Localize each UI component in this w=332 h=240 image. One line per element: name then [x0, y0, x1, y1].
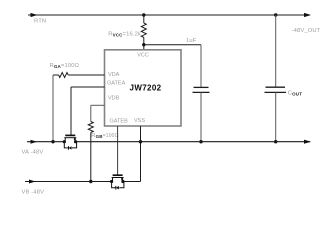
svg-text:GATEA: GATEA: [107, 81, 126, 87]
wire VSS pin: [140, 126, 142, 182]
capacitor C1 1uF: [193, 87, 210, 92]
wire VCC node to C1: [144, 44, 201, 46]
wire C1 bottom lead: [200, 92, 202, 141]
node RTN label: [34, 19, 46, 25]
wire GATEA pin: [71, 87, 105, 135]
resistor RGB=100ohm (vertical): [88, 122, 93, 133]
wire C1 top lead: [200, 45, 202, 87]
wire VDB pin: [91, 105, 105, 121]
arrow RTN input (left, pointing right): [31, 13, 38, 17]
resistor RGA=100ohm (horizontal): [53, 73, 68, 78]
junction RGB / VB rail: [89, 180, 92, 183]
svg-text:RGB=100Ω: RGB=100Ω: [91, 133, 118, 139]
svg-text:VSS: VSS: [134, 118, 145, 124]
resistor RVCC=16.2k (vertical): [141, 15, 146, 45]
node -48V_OUT label: [292, 28, 321, 34]
label RVCC=16.2k: [108, 32, 141, 38]
node VA -48V label: [22, 149, 44, 155]
label C1 value 1uF: [186, 38, 197, 44]
svg-text:VDA: VDA: [108, 72, 120, 78]
label COUT: [288, 91, 302, 97]
arrow VB input (pointing right): [29, 180, 36, 184]
wire GATEB pin: [117, 126, 119, 175]
svg-text:1uF: 1uF: [186, 38, 197, 44]
arrow VA input (pointing right): [31, 140, 38, 144]
junction C1 / -48V rail: [199, 140, 202, 143]
wire COUT bottom lead: [275, 92, 277, 141]
wire VDA pin: [68, 74, 104, 76]
svg-text:RVCC=16.2k: RVCC=16.2k: [108, 32, 141, 38]
svg-text:VB -48V: VB -48V: [22, 189, 45, 195]
wire VB rail (left of Q2): [25, 181, 112, 183]
svg-text:JW7202: JW7202: [130, 84, 162, 93]
wire RTN top rail: [28, 14, 310, 16]
capacitor COUT: [265, 87, 287, 92]
wire RGA to VA rail: [52, 75, 54, 142]
svg-text:COUT: COUT: [288, 91, 302, 97]
junction VSS / VA rail: [139, 140, 142, 143]
wire COUT top lead: [275, 15, 277, 87]
junction top rail / RVCC: [142, 13, 145, 16]
node VB -48V label: [22, 189, 45, 195]
arrow top rail output (right, pointing right): [304, 13, 311, 17]
op-amp U1 JW7202 chip body: [105, 50, 182, 126]
svg-text:RGA=100Ω: RGA=100Ω: [50, 63, 80, 69]
arrow -48V rail output (pointing right): [304, 140, 311, 144]
wire VCC pin stub: [143, 45, 145, 50]
svg-text:GATEB: GATEB: [110, 119, 129, 125]
junction top rail / COUT: [274, 13, 277, 16]
svg-text:-48V_OUT: -48V_OUT: [292, 28, 321, 34]
transistor Q1 (MOSFET A): [63, 135, 77, 149]
transistor Q2 (MOSFET B): [110, 175, 125, 189]
label RGA=100ohm: [50, 63, 80, 69]
wire VA rail (left of Q1): [27, 141, 64, 143]
junction VCC node: [142, 43, 145, 46]
junction RGA / VA rail: [51, 140, 54, 143]
wire -48V rail (right of Q1): [76, 141, 310, 143]
svg-text:VDB: VDB: [108, 96, 120, 102]
wire VB rail (right of Q2 up to VSS): [123, 181, 141, 183]
junction COUT / -48V rail: [274, 140, 277, 143]
wire RGB to VB rail: [90, 133, 92, 182]
svg-text:RTN: RTN: [34, 19, 46, 25]
svg-text:VA -48V: VA -48V: [22, 149, 44, 155]
label RGB=100ohm: [91, 133, 118, 139]
svg-text:VCC: VCC: [137, 53, 149, 59]
